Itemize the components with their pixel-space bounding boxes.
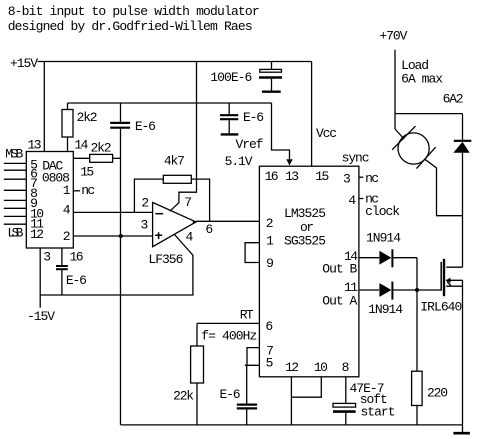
capacitor C5 E-6 [246,365,248,403]
wire ground rail [121,424,463,426]
svg-text:4: 4 [63,202,71,217]
svg-text:1N914: 1N914 [366,231,401,246]
svg-text:16: 16 [265,169,279,184]
svg-text:Out B: Out B [322,262,357,277]
wire DAC pin 2 to op-amp non-inverting input [73,235,152,237]
wire pin 10 stub [291,377,321,397]
svg-text:15: 15 [80,165,94,180]
wire pin 12 stub [290,377,292,425]
resistor R2 2k2 [73,157,89,159]
wire DAC pin 4 to op-amp inverting input [73,211,152,213]
capacitor C4 E-6 [61,248,63,265]
svg-text:6A max: 6A max [401,71,443,86]
svg-text:E-6: E-6 [135,119,156,134]
wire +15V to DAC pin 13 [43,62,45,152]
svg-text:designed by dr.Godfried-Willem: designed by dr.Godfried-Willem Raes [8,19,253,34]
svg-text:5.1V: 5.1V [225,154,253,169]
svg-text:3: 3 [43,249,51,264]
svg-text:Out A: Out A [322,294,357,309]
svg-text:9: 9 [266,256,274,271]
svg-text:8: 8 [342,360,350,375]
svg-text:+15V: +15V [10,56,38,71]
svg-text:8-bit input to pulse width mod: 8-bit input to pulse width modulator [8,4,260,19]
svg-text:f= 400Hz: f= 400Hz [201,329,257,344]
svg-text:Vref: Vref [236,137,264,152]
svg-text:Vcc: Vcc [316,126,337,141]
diode D2 body [379,283,391,297]
resistor R5 220 [412,371,423,405]
svg-text:LSB: LSB [7,226,23,241]
wire gate network [416,258,418,371]
wire +15V rail [38,61,312,63]
svg-text:5: 5 [266,356,274,371]
wire DAC pin1 nc stub [73,190,80,192]
node Vref rail [68,102,272,104]
svg-text:11: 11 [344,280,358,295]
capacitor C3 E-6 [228,103,230,114]
resistor R3 4k7 [163,175,191,183]
svg-text:3: 3 [343,172,351,187]
svg-text:1: 1 [63,183,71,198]
diode D3 freewheel [454,140,472,142]
diode D1 1N914 [359,257,379,259]
diode D3 body [453,142,469,153]
svg-text:SG3525: SG3525 [284,233,326,248]
svg-text:2k2: 2k2 [91,141,112,156]
wire +70V feed [394,50,396,129]
diode D2 1N914 [359,289,379,291]
wire pins 7-5 bracket [245,348,260,366]
svg-text:start: start [361,405,396,420]
svg-text:1: 1 [266,234,274,249]
svg-text:RT: RT [240,307,254,322]
svg-text:2: 2 [141,195,149,210]
wire op-amp V+ supply [170,62,197,212]
svg-text:LM3525: LM3525 [284,206,326,221]
svg-text:MSB: MSB [5,146,23,161]
wire Vref to pin 13 [272,103,290,160]
svg-text:220: 220 [427,385,448,400]
capacitor C6 47E-7 soft start [345,377,347,404]
transistor Q1 IRL640 [443,259,445,296]
diode D1 body [379,251,391,265]
wire DAC pin 3 to -15V [39,248,41,308]
svg-text:4: 4 [348,193,356,208]
svg-text:16: 16 [70,249,84,264]
svg-text:E-6: E-6 [66,273,87,288]
svg-text:-15V: -15V [27,309,55,324]
wire pin 3 nc stub [359,176,364,178]
svg-text:3: 3 [141,218,149,233]
svg-text:sync: sync [342,151,370,166]
svg-text:IRL640: IRL640 [420,299,462,314]
IC U1 DAC0808 [26,152,73,249]
svg-text:6A2: 6A2 [443,92,464,107]
wire source to ground [462,280,464,425]
wire pin 6 RT [197,322,259,324]
svg-text:12: 12 [30,227,44,242]
svg-text:12: 12 [285,360,299,375]
wire op-amp output to SG3525 pin 2 [196,220,259,222]
wire load slash 1 [392,126,415,150]
load lamp [395,129,404,139]
svg-text:LF356: LF356 [148,252,183,267]
wire op-amp V- lead [121,235,193,296]
wire pin 4 nc stub [359,198,364,200]
svg-text:4k7: 4k7 [164,153,185,168]
svg-text:10: 10 [314,360,328,375]
svg-text:100E-6: 100E-6 [210,70,252,85]
svg-text:2: 2 [63,229,71,244]
wire data input stubs [4,163,27,224]
svg-text:22k: 22k [173,389,194,404]
node junction gate [415,288,419,292]
svg-text:E-6: E-6 [220,387,241,402]
ground [462,425,464,432]
op-amp U2 LF356 [153,202,196,246]
resistor R1 2k2 [67,103,69,110]
svg-text:14: 14 [74,137,88,152]
svg-text:+70V: +70V [379,29,407,44]
wire drain riser [462,114,464,140]
wire pins 1-9 bracket [245,243,260,263]
svg-text:6: 6 [265,319,273,334]
transistor Q1 source arrow [446,278,451,283]
svg-text:15: 15 [315,169,329,184]
IC U3 SG3525 [259,166,359,377]
svg-text:E-6: E-6 [243,110,264,125]
wire load slash 2 [416,147,435,168]
capacitor C1 E-6 [120,103,122,122]
svg-text:2k2: 2k2 [77,110,98,125]
wire DAC ground run [40,294,120,296]
svg-text:7: 7 [184,195,192,210]
svg-text:nc: nc [365,171,379,186]
svg-text:clock: clock [365,204,400,219]
node junction op-amp + input [119,234,123,238]
svg-text:13: 13 [28,137,42,152]
svg-text:13: 13 [285,169,299,184]
svg-text:6: 6 [205,222,213,237]
wire op-amp output tick [193,220,197,223]
svg-text:4: 4 [186,230,194,245]
svg-text:2: 2 [266,216,274,231]
wire Vref arrowhead [286,159,292,165]
svg-text:nc: nc [81,183,95,198]
capacitor C2 100E-6 [271,62,273,70]
svg-text:1N914: 1N914 [368,302,403,317]
wire Vcc [311,62,313,167]
resistor R4 22k [196,323,198,346]
